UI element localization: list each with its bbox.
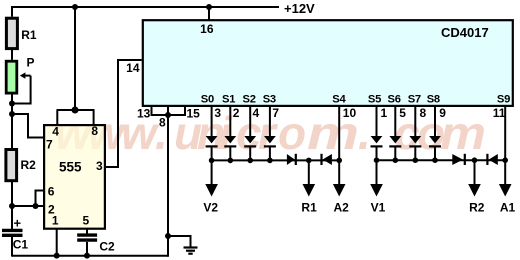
svg-text:555: 555 <box>59 160 82 175</box>
svg-text:S5: S5 <box>368 94 381 106</box>
svg-text:S8: S8 <box>427 94 440 106</box>
svg-text:R1: R1 <box>301 201 317 215</box>
svg-text:5: 5 <box>399 106 406 120</box>
svg-text:6: 6 <box>48 185 55 199</box>
svg-text:7: 7 <box>272 106 279 120</box>
svg-text:9: 9 <box>439 106 446 120</box>
svg-text:4: 4 <box>52 125 59 139</box>
svg-text:10: 10 <box>343 106 357 120</box>
svg-text:15: 15 <box>187 107 201 121</box>
svg-text:S1: S1 <box>222 94 235 106</box>
svg-text:S9: S9 <box>497 94 510 106</box>
svg-text:+: + <box>14 216 22 231</box>
svg-text:C1: C1 <box>13 238 29 252</box>
svg-text:m: m <box>440 107 486 159</box>
svg-text:S2: S2 <box>243 94 256 106</box>
svg-text:R1: R1 <box>21 28 37 42</box>
svg-text:S7: S7 <box>408 94 421 106</box>
svg-text:S4: S4 <box>332 94 346 106</box>
svg-text:1: 1 <box>381 106 388 120</box>
svg-text:R2: R2 <box>21 158 37 172</box>
svg-text:4: 4 <box>253 106 260 120</box>
svg-text:S3: S3 <box>263 94 276 106</box>
svg-text:11: 11 <box>493 106 506 120</box>
svg-text:R2: R2 <box>469 201 485 215</box>
svg-text:S6: S6 <box>388 94 401 106</box>
svg-text:V1: V1 <box>371 201 386 215</box>
svg-text:A2: A2 <box>334 201 350 215</box>
svg-text:13: 13 <box>137 107 151 121</box>
svg-text:16: 16 <box>200 22 214 36</box>
svg-text:2: 2 <box>233 106 240 120</box>
svg-text:8: 8 <box>91 124 98 138</box>
svg-text:14: 14 <box>126 61 140 75</box>
svg-text:S0: S0 <box>201 94 214 106</box>
svg-text:3: 3 <box>214 106 221 120</box>
svg-text:A1: A1 <box>500 201 516 215</box>
svg-text:8: 8 <box>159 116 166 130</box>
svg-text:1: 1 <box>52 214 59 228</box>
svg-text:P: P <box>27 56 35 70</box>
svg-text:C2: C2 <box>99 240 115 254</box>
svg-text:V2: V2 <box>203 201 218 215</box>
svg-text:5: 5 <box>82 214 89 228</box>
svg-text:3: 3 <box>96 159 103 173</box>
svg-text:+12V: +12V <box>284 1 315 16</box>
svg-text:7: 7 <box>46 138 53 152</box>
svg-text:8: 8 <box>420 106 427 120</box>
svg-text:CD4017: CD4017 <box>441 25 489 40</box>
